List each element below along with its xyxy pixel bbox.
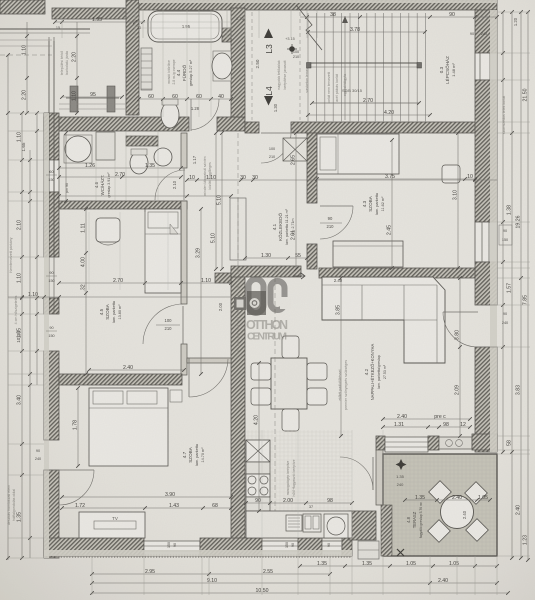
guide lines bottom [91,556,93,595]
terrace tile grid [385,454,387,556]
dim left x22 [21,113,23,558]
wall vestibule left V2b lower [181,201,187,304]
guide lines right [497,11,530,13]
kitchen counter bottom [246,511,352,538]
site boundary block top-left [0,0,45,14]
terrace north star [396,459,407,470]
guide lines left [8,112,44,114]
dim bottom y583 [92,582,497,584]
terrace edge [383,454,497,556]
wall right outer seg1 [475,10,497,53]
window kitchen south [385,437,428,452]
terrace door arc [372,457,374,490]
terrace table [441,496,474,529]
corridor dashed axis [251,12,253,120]
dim long y180 [187,179,497,181]
insulation top wall [139,0,497,3]
sofa outline [322,277,445,363]
porch bench post 2 [107,86,115,112]
door room 4.3 arc [320,205,353,207]
terrace planter strip [381,505,392,556]
wall right outer seg3 [475,262,497,305]
plan axis dashed [274,269,276,538]
dim porch v1 [26,22,28,113]
wardrobe room 4.3 [333,241,403,267]
dim terrace top [383,426,470,428]
hall door arrow [293,273,305,279]
hall axis dashed [237,133,239,358]
sofa cushions [322,284,437,286]
wall left outer seg3 [44,351,59,440]
window 60/150 left wall [44,160,59,192]
wall kitchen south seg1 [376,436,385,450]
dim kitchen row [246,502,352,504]
vestibule door arc [188,358,190,397]
wall right outer seg4 [475,347,497,452]
wardrobe niche hall [230,198,246,260]
dim room47 2.40 [89,369,184,371]
wall bottom seg2 [200,538,262,556]
laundry shelf [126,136,158,146]
dim porch v2 [76,22,78,113]
terrace corner mark bottom [397,549,404,556]
dim room45 v 4.00 [85,209,87,374]
wall porch top [52,8,135,19]
kitchen dishwasher [286,515,302,531]
survey point [289,46,295,52]
wall left outer seg4 [44,470,59,558]
wall under stairs [291,122,480,133]
dim room47 1.78 [77,388,79,466]
armchair room 4.5 [96,218,120,242]
stair dim 4.20 [308,114,430,116]
wall left outer seg2 [44,192,59,257]
dim top-left stub lines [0,39,52,41]
dim stairs top row [300,16,497,18]
bed room 4.5 [145,209,181,293]
porch bench post 1 [70,86,78,112]
wall top band bathroom+stairs [139,0,497,10]
extension lines bath top [139,21,231,23]
wall kitchen-terrace column [349,511,376,540]
watermark badge swirl [250,298,260,308]
nightstand room 4.7 [170,390,182,402]
extension lines bathroom [162,10,164,117]
dim living 3.85 [340,278,342,436]
terrace slab [383,454,497,556]
dim room43 3.10 [457,133,459,268]
kitchen tile grid [247,430,249,538]
porch entry steps [59,103,126,105]
balcony door right arc [443,311,478,313]
dim room47 3.90 [62,496,231,498]
door 100/210 room 4.5 [182,306,184,344]
dim stair 3.78 [308,31,425,33]
watermark badge square [247,291,266,315]
dim bottom y574 [92,573,330,575]
dining table [271,358,307,409]
wall under corridor left [245,122,259,133]
window 90/150 left wall lower [44,313,59,315]
watermark OC logo O [249,279,264,313]
bath wc [161,102,179,128]
wall V2b stub below door [181,344,187,375]
wall laundry bottom [59,201,187,209]
stair handrail [307,62,421,64]
dining chairs [251,363,271,380]
kitchen fridge [246,440,270,462]
wall bottom seg1 [44,538,144,556]
wall H4 hall bottom right [319,268,475,278]
dim window line left [8,296,231,298]
insulation left wall [44,113,49,558]
wall kitchen south seg2 [428,436,439,450]
wall bottom seg3 [298,538,322,556]
wall porch right [126,0,139,115]
property dashed line [0,54,52,56]
laundry wc [130,152,148,174]
dim bottom y593 [92,592,508,594]
watermark OC logo C [271,281,285,310]
dim corridor 2.65 [295,133,297,269]
wall bottom seg4 [342,538,352,556]
dim terrace inner [405,499,490,501]
wall bathroom/center V3 top [231,8,245,117]
window bottom wall 2 [262,541,298,556]
dim hall extra v [215,133,217,269]
stair handrail posts [307,63,312,69]
dim laundry left [65,133,67,201]
wall left pier between windows [44,298,59,314]
laundry sink [154,148,172,166]
wall H5 rooms divider [59,374,182,385]
counter by kitchen window [439,437,472,449]
bath sink [213,51,231,81]
wall V4 corridor-szoba lower [307,244,317,269]
kitchen counter mid [246,497,270,511]
dim porch 95 [62,96,122,98]
dim terrace top2 [383,418,470,420]
bed room 4.7 [89,388,168,466]
dim left x8 [7,55,9,560]
dim laundry row1 [59,167,181,169]
dim left x30 [29,150,31,558]
dim laundry row2 [59,176,181,178]
wall H3 right of bath door [217,117,245,131]
extension lines rooms [88,212,90,290]
dim room43 3.75 [317,178,475,180]
door threshold lines [188,117,190,131]
terrace step outside [358,541,379,559]
kitchen washer [324,514,348,538]
wall vestibule bottom [187,358,231,363]
fence double line [0,28,90,30]
wall H3 left part [44,117,189,131]
bath wall pier [222,28,231,42]
extension lines laundry [95,131,97,201]
wall V4 corridor-szoba upper [307,133,317,203]
stair walk line [312,102,419,104]
insulation fringe bottom [44,554,352,558]
stair break line [296,5,322,50]
wall right outer seg2 [475,80,497,222]
dim top porch [55,21,145,23]
dim bath internal [139,98,231,100]
insulation right wall [490,10,497,452]
dim bottom y566 [300,565,497,567]
dim right x521 [520,12,522,558]
insulation bottom wall [44,550,352,556]
section marker L3 [264,29,273,39]
kitchen stove [246,474,270,497]
wall V3 main lower [231,269,245,553]
bed room 4.3 [317,134,399,174]
bath radiator [141,48,152,90]
terrace chairs [429,481,452,504]
wall stub vestibule top [215,273,231,283]
dim right x528 [527,12,529,560]
corridor entry door arc [261,132,291,134]
wall laundry-corridor V2b [181,133,187,168]
window 150 bottom wall 1 [144,541,200,556]
wall terrace west stub [376,450,383,505]
chair room 4.3 [442,165,460,183]
bathroom door arc [190,99,192,131]
wall kitchen south seg3 [472,434,497,450]
wall left outer seg1 [44,113,59,160]
kitchen counter left [246,462,270,474]
hall wardrobe X [283,138,307,161]
window bottom wall 3 [322,541,342,556]
door 90/240 left wall [59,469,94,471]
laundry cabinet [96,132,115,160]
dim living 3.80 [459,278,461,436]
window 60/240 stair right [475,53,497,80]
dim room45 3.29 [200,209,202,374]
window 90/150 left wall upper [44,256,59,258]
wall H4 hall bottom left [231,266,301,277]
dim laundry bottom row [59,195,231,197]
dim hall 130-55 [245,257,307,259]
bathtub [148,11,222,42]
stair dim 2.70 [312,102,419,104]
stair treads [307,13,309,122]
watermark chimney block [234,297,246,310]
kitchen sink [303,514,321,532]
dim 5.10 corridor [221,133,223,269]
laundry washing machine [65,136,91,162]
dim right x503 [502,12,504,452]
laundry door arc [183,168,185,200]
tv cabinet [79,512,145,538]
dim room47 row2 [62,507,231,509]
porch bench rail [66,97,119,99]
guide lines top [61,10,63,38]
window 90/150 right wall [475,222,497,262]
dim 4.20 dining [258,363,260,511]
stair walking line [344,16,346,120]
dim left x37 [36,113,38,385]
dim right x512 [511,12,513,558]
dim room43 mid [391,140,393,268]
dim room45 2.70 [59,282,231,284]
